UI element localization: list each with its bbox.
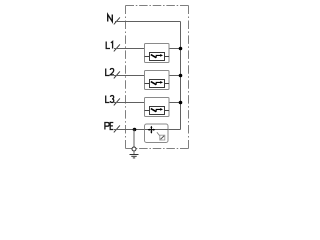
pointer slash	[157, 132, 160, 136]
junction at L2/bus	[179, 74, 183, 78]
wire L2 right	[169, 75, 181, 77]
wire PE	[114, 129, 145, 131]
crossed arrows spark gap symbol	[148, 129, 154, 131]
SPD module L3 (varistor arrester)	[145, 98, 170, 117]
SPD module L2 (varistor arrester)	[145, 71, 170, 90]
enclosure dash-dot border right	[188, 6, 190, 149]
node L1 label	[106, 42, 110, 49]
wire L1 left	[114, 48, 145, 50]
terminal slash L3	[114, 98, 120, 105]
node L2 label	[106, 69, 110, 76]
enclosure dash-dot border top	[126, 5, 189, 7]
terminal circle on enclosure boundary	[132, 147, 136, 151]
wire PE to earth	[133, 130, 135, 148]
node L3 label	[106, 96, 110, 103]
terminal slash L2	[114, 71, 120, 78]
enclosure dash-dot border left	[125, 6, 127, 149]
wire vertical bus from N	[180, 22, 182, 130]
wire PE right (to bus)	[168, 129, 181, 131]
ground symbol	[130, 155, 139, 158]
boxed mark	[160, 135, 165, 140]
terminal slash L1	[114, 44, 120, 51]
node PE label	[105, 123, 109, 130]
node N label	[108, 15, 113, 22]
enclosure dash-dot border bottom	[126, 148, 189, 150]
junction at L1/bus	[179, 47, 183, 51]
wire L3 right	[169, 102, 181, 104]
N-PE spark gap module	[145, 124, 169, 143]
wire L3 left	[114, 102, 145, 104]
wire circle to earth symbol	[133, 151, 135, 155]
wire L1 right	[169, 48, 181, 50]
terminal slash PE	[114, 125, 120, 132]
junction at PE	[133, 128, 137, 132]
junction at L3/bus	[179, 101, 183, 105]
wire L2 left	[114, 75, 145, 77]
wire N	[115, 21, 181, 23]
internal through wire	[145, 129, 169, 131]
SPD module L1 (varistor arrester)	[145, 44, 170, 63]
terminal slash N	[114, 17, 120, 24]
